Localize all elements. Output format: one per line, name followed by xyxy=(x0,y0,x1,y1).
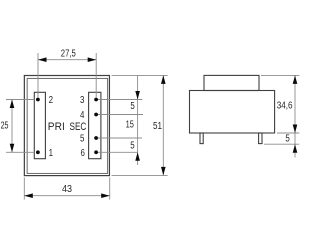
svg-text:34,6: 34,6 xyxy=(277,100,293,111)
svg-text:15: 15 xyxy=(126,120,135,131)
svg-text:4: 4 xyxy=(80,110,85,121)
svg-text:51: 51 xyxy=(153,121,162,132)
svg-text:5: 5 xyxy=(130,101,135,112)
svg-text:43: 43 xyxy=(62,184,72,195)
svg-text:1: 1 xyxy=(49,148,54,159)
svg-text:25: 25 xyxy=(1,120,9,131)
svg-text:3: 3 xyxy=(80,95,85,106)
svg-text:PRI: PRI xyxy=(48,121,65,133)
svg-text:5: 5 xyxy=(130,140,135,151)
svg-text:6: 6 xyxy=(81,148,86,159)
svg-text:5: 5 xyxy=(80,134,85,145)
svg-text:2: 2 xyxy=(49,95,54,106)
svg-text:5: 5 xyxy=(285,134,290,145)
svg-text:27,5: 27,5 xyxy=(61,48,76,59)
svg-text:SEC: SEC xyxy=(70,121,87,133)
